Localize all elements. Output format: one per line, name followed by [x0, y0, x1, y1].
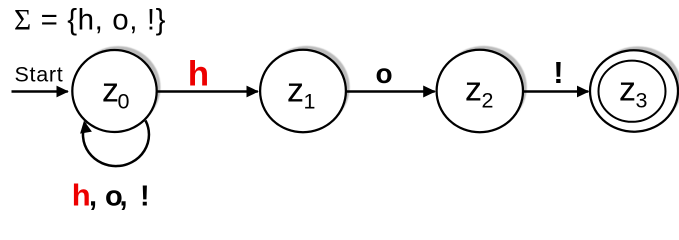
state z3 inner circle — [599, 61, 666, 122]
transition wire z2 to z3 labelled ! — [523, 90, 588, 93]
state z2 circle — [437, 50, 523, 132]
state z1 circle — [260, 50, 346, 132]
state z2 shadow — [440, 46, 526, 128]
transition wire z1 to z2 labelled o — [346, 90, 435, 93]
transition wire z0 to z1 labelled h — [157, 90, 258, 93]
svg-text:h,o,!: h,o,! — [72, 178, 150, 213]
svg-text:Start: Start — [15, 63, 64, 87]
self-loop arrowhead — [80, 121, 92, 134]
state z1 shadow — [264, 46, 350, 128]
state z0 circle — [72, 50, 156, 132]
svg-text:Σ = {h, o, !}: Σ = {h, o, !} — [14, 4, 166, 37]
start arrow wire — [12, 90, 68, 93]
state z3 outer circle — [590, 50, 678, 131]
self-loop wire on z0 — [83, 121, 149, 167]
svg-text:o: o — [376, 58, 393, 89]
state z0 shadow — [76, 46, 160, 128]
state z3 (accepting) shadow — [594, 46, 679, 127]
svg-text:!: ! — [553, 55, 563, 90]
svg-text:h: h — [188, 55, 209, 94]
alphabet label "Sigma = {h, o, !}" — [14, 4, 166, 37]
